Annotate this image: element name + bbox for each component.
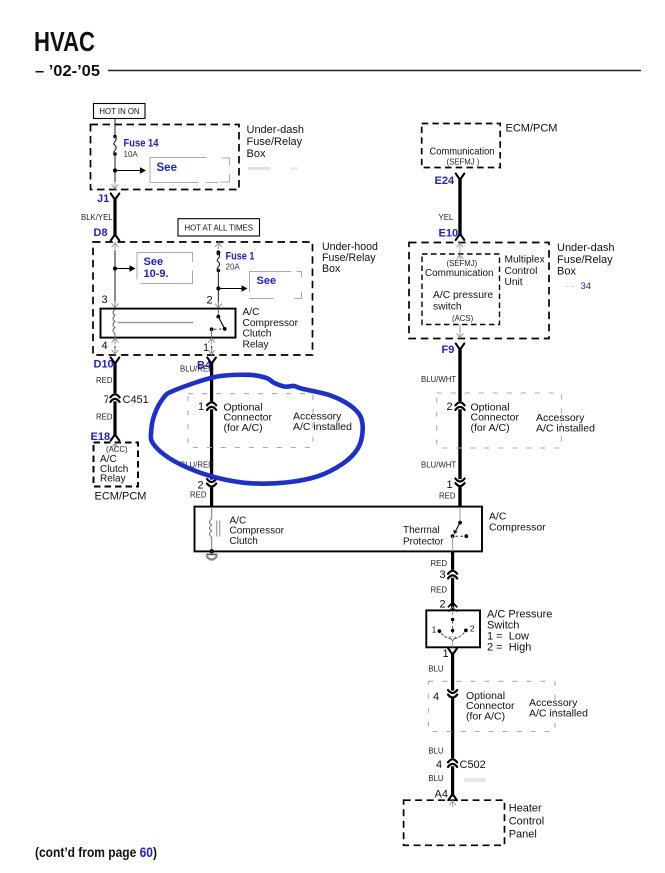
label HOT IN ON box bbox=[94, 104, 146, 119]
svg-text:(cont’d from page 60): (cont’d from page 60) bbox=[35, 845, 157, 860]
svg-text:RED: RED bbox=[96, 413, 113, 422]
svg-text:A/C installed: A/C installed bbox=[529, 708, 588, 720]
svg-text:See: See bbox=[144, 256, 164, 268]
svg-text:10-9.: 10-9. bbox=[144, 268, 169, 280]
svg-text:Under-dash: Under-dash bbox=[557, 242, 614, 254]
wire relay pin1 to box edge bbox=[208, 346, 214, 355]
label B4 bbox=[197, 360, 212, 372]
label Fuse 1 bbox=[226, 251, 255, 263]
connector 1 label (right) bbox=[447, 479, 453, 491]
junction dot see tap right bbox=[216, 286, 220, 290]
svg-text:20A: 20A bbox=[226, 263, 241, 272]
relay pin 2 label bbox=[207, 295, 213, 307]
connector C451 pin 7 label bbox=[104, 394, 110, 406]
optional connector box (A/C) left (dashed) bbox=[188, 394, 313, 448]
wire B4 to compressor (BLU/RED) bbox=[207, 358, 216, 507]
faint erased see-reference bbox=[565, 286, 577, 288]
see-reference box (under-dash) bbox=[150, 158, 230, 183]
svg-text:2 = High: 2 = High bbox=[487, 642, 531, 654]
svg-text:Relay: Relay bbox=[100, 474, 126, 485]
wire from HOT IN ON into under-dash box bbox=[114, 119, 116, 137]
erased text remnant (box 1) bbox=[248, 167, 298, 170]
junction dot see tap left bbox=[113, 266, 117, 270]
terminal heater panel top bbox=[449, 800, 455, 807]
svg-text:Fuse 1: Fuse 1 bbox=[226, 251, 255, 263]
svg-text:C451: C451 bbox=[123, 394, 149, 406]
svg-text:1: 1 bbox=[198, 401, 204, 413]
A/C pressure switch box bbox=[426, 610, 480, 647]
A/C compressor box bbox=[195, 507, 483, 552]
hand-drawn blue ellipse annotation bbox=[151, 375, 363, 484]
footer cont'd from page 60 bbox=[35, 845, 157, 860]
svg-text:RED: RED bbox=[431, 586, 448, 595]
svg-text:A/C installed: A/C installed bbox=[536, 423, 595, 435]
svg-text:HOT IN ON: HOT IN ON bbox=[99, 107, 139, 116]
junction dot fuse 14 tap bbox=[113, 168, 117, 172]
label 20A bbox=[226, 263, 241, 272]
label E10 bbox=[439, 228, 459, 240]
svg-text:Under-dash: Under-dash bbox=[247, 124, 304, 136]
label ECM/PCM (left) bbox=[95, 491, 147, 503]
label Accessory A/C installed bottom bbox=[529, 697, 588, 720]
svg-text:BLU: BLU bbox=[428, 774, 444, 783]
svg-text:Fuse/Relay: Fuse/Relay bbox=[557, 254, 613, 266]
wire below fuse 1 bbox=[217, 271, 219, 309]
svg-text:4: 4 bbox=[436, 759, 442, 771]
connector 2 label (pressure) bbox=[440, 599, 446, 611]
label J1 bbox=[97, 193, 109, 205]
label Optional Connector (for A/C) right bbox=[471, 402, 520, 434]
label D10 bbox=[94, 359, 114, 371]
label D8 bbox=[94, 227, 108, 239]
svg-text:Communication: Communication bbox=[425, 268, 494, 279]
junction dot at compressor ground bbox=[209, 549, 214, 554]
svg-text:F9: F9 bbox=[442, 344, 455, 356]
svg-text:A4: A4 bbox=[435, 789, 448, 801]
label (ACC) bbox=[106, 445, 128, 454]
label E18 bbox=[91, 431, 111, 443]
svg-text:1: 1 bbox=[443, 648, 449, 660]
svg-text:1: 1 bbox=[203, 342, 209, 354]
connector 3 label bbox=[440, 569, 446, 581]
pressure switch pin 1 label bbox=[443, 648, 449, 660]
see-reference box (under-hood) bbox=[250, 272, 302, 299]
terminal at under-dash box bottom bbox=[112, 183, 118, 190]
header rule bbox=[108, 70, 641, 72]
relay pin 2 terminal bbox=[215, 302, 221, 309]
optional connector pin 4 label bbox=[433, 691, 439, 703]
svg-text:Box: Box bbox=[247, 148, 266, 160]
svg-text:Communication: Communication bbox=[430, 147, 495, 158]
svg-text:Thermal: Thermal bbox=[403, 525, 440, 536]
svg-text:A/C: A/C bbox=[243, 307, 260, 318]
svg-text:Control: Control bbox=[509, 816, 544, 828]
relay switch bbox=[210, 309, 227, 337]
heater control panel box (dashed) bbox=[404, 800, 505, 845]
label A/C Clutch Relay bbox=[100, 454, 128, 485]
label A/C Pressure Switch legend bbox=[487, 609, 552, 654]
svg-text:Box: Box bbox=[557, 266, 576, 278]
svg-text:RED: RED bbox=[96, 376, 113, 385]
wire below fuse 14 bbox=[114, 154, 116, 182]
svg-text:Protector: Protector bbox=[403, 537, 444, 548]
label A4 bbox=[435, 789, 448, 801]
connector 2 chevrons (pressure) bbox=[448, 602, 456, 611]
label Under-hood Fuse/Relay Box bbox=[322, 241, 378, 275]
svg-text:Control: Control bbox=[505, 266, 538, 277]
label Accessory A/C installed left bbox=[293, 411, 352, 434]
label A/C Compressor (right) bbox=[489, 512, 546, 534]
A/C compressor clutch relay box bbox=[101, 309, 236, 338]
svg-text:BLU/RED: BLU/RED bbox=[180, 365, 214, 374]
label Optional Connector (for A/C) bottom bbox=[466, 690, 515, 722]
label (ACS) bbox=[452, 314, 474, 323]
optional connector pin 1 label bbox=[198, 401, 204, 413]
fuse F14 bbox=[113, 135, 117, 156]
svg-text:D8: D8 bbox=[94, 227, 108, 239]
connector C451 chevrons bbox=[108, 393, 122, 402]
label BLU (above C502) bbox=[428, 747, 444, 756]
arrow to see-reference bbox=[115, 167, 146, 173]
title HVAC bbox=[34, 26, 95, 57]
optional connector 1 chevrons bbox=[205, 401, 219, 410]
svg-text:RED: RED bbox=[190, 491, 207, 500]
wire relay pin4 to box edge bbox=[112, 346, 118, 355]
svg-text:RED: RED bbox=[439, 492, 456, 501]
label Communication (multiplex) bbox=[425, 268, 494, 279]
optional connector pin 2 label (right) bbox=[447, 401, 453, 413]
svg-text:4: 4 bbox=[433, 691, 439, 703]
label YEL bbox=[439, 213, 454, 222]
see-reference box 10-9 bbox=[137, 253, 193, 284]
svg-text:BLU: BLU bbox=[428, 747, 444, 756]
label C502 bbox=[460, 759, 486, 771]
terminal under-dash2 top bbox=[457, 242, 463, 249]
connector 3 chevrons bbox=[446, 570, 460, 579]
svg-text:2: 2 bbox=[470, 624, 475, 634]
svg-text:E10: E10 bbox=[439, 228, 459, 240]
svg-text:E24: E24 bbox=[435, 175, 455, 187]
svg-text:BLU/WHT: BLU/WHT bbox=[421, 375, 456, 384]
label RED above pressure switch bbox=[431, 586, 448, 595]
ground G (compressor) bbox=[206, 551, 218, 559]
relay pin 4 terminal bbox=[112, 338, 118, 345]
svg-text:4: 4 bbox=[102, 340, 108, 352]
compressor clutch coil bbox=[209, 507, 219, 551]
svg-text:RED: RED bbox=[431, 559, 448, 568]
label RED (middle) bbox=[190, 491, 207, 500]
svg-text:D10: D10 bbox=[94, 359, 114, 371]
optional connector 2 chevrons (right) bbox=[453, 401, 467, 410]
E18 A/C clutch relay box (dashed) bbox=[94, 443, 139, 487]
label E24 bbox=[435, 175, 455, 187]
svg-text:(for A/C): (for A/C) bbox=[471, 422, 510, 434]
svg-text:(SEFMJ ): (SEFMJ ) bbox=[447, 157, 480, 166]
svg-text:Compressor: Compressor bbox=[243, 318, 299, 329]
svg-text:BLU/WHT: BLU/WHT bbox=[421, 461, 456, 470]
label C451 bbox=[123, 394, 149, 406]
label BLU (below pressure switch) bbox=[428, 665, 444, 674]
label (SEFMJ ) (ECM) bbox=[447, 157, 480, 166]
svg-text:Panel: Panel bbox=[509, 829, 537, 841]
connector C502 pin 4 label bbox=[436, 759, 442, 771]
label Multiplex Control Unit bbox=[505, 255, 545, 289]
optional connector box (A/C) bottom (dashed) bbox=[428, 681, 555, 731]
wire compressor to pressure switch (RED) bbox=[451, 551, 454, 610]
label Accessory A/C installed right bbox=[536, 412, 595, 435]
relay pin 4 label bbox=[102, 340, 108, 352]
optional connector box (A/C) right (dashed) bbox=[437, 393, 562, 448]
label BLU/RED (lower) bbox=[180, 461, 214, 470]
label A/C pressure switch (multiplex) bbox=[433, 290, 493, 313]
label RED below compressor bbox=[431, 559, 448, 568]
label Under-dash Fuse/Relay Box bbox=[247, 124, 304, 160]
label 10A bbox=[124, 150, 139, 159]
erased remnant near C502 bbox=[464, 778, 486, 782]
svg-text:switch: switch bbox=[433, 302, 462, 313]
relay pin 3 label bbox=[102, 294, 108, 306]
svg-text:C502: C502 bbox=[460, 759, 486, 771]
label (SEFMJ) (multiplex) bbox=[447, 259, 478, 268]
optional connector 4 chevrons bbox=[446, 690, 460, 699]
svg-text:HVAC: HVAC bbox=[34, 26, 95, 57]
svg-text:J1: J1 bbox=[97, 193, 109, 205]
relay pin 1 terminal bbox=[208, 338, 214, 345]
wire F9 to compressor (BLU/WHT) bbox=[456, 344, 465, 507]
arrow to see 10-9 bbox=[115, 265, 136, 271]
svg-text:2: 2 bbox=[440, 599, 446, 611]
svg-text:See: See bbox=[257, 275, 277, 287]
terminal inner box top bbox=[457, 254, 463, 261]
svg-text:Compressor: Compressor bbox=[489, 523, 546, 534]
terminal E18 box top bbox=[112, 443, 118, 450]
svg-text:(SEFMJ): (SEFMJ) bbox=[447, 259, 478, 268]
svg-text:2: 2 bbox=[447, 401, 453, 413]
wire left branch in under-hood box bbox=[114, 250, 116, 309]
svg-text:34: 34 bbox=[581, 281, 592, 292]
junction dot above fuse 1 bbox=[217, 250, 221, 254]
svg-text:YEL: YEL bbox=[439, 213, 454, 222]
label Thermal Protector bbox=[403, 525, 444, 548]
wire J1 to D8 (BLK/YEL) bbox=[111, 194, 120, 241]
wire E24 to E10 (YEL) bbox=[456, 174, 465, 241]
svg-text:HOT AT ALL TIMES: HOT AT ALL TIMES bbox=[184, 223, 252, 232]
svg-text:1: 1 bbox=[432, 625, 437, 635]
pressure switch internals bbox=[432, 611, 475, 647]
label BLU (below C502) bbox=[428, 774, 444, 783]
svg-text:E18: E18 bbox=[91, 431, 111, 443]
svg-text:Fuse 14: Fuse 14 bbox=[124, 138, 160, 150]
svg-text:Multiplex: Multiplex bbox=[505, 255, 545, 266]
subtitle '02-'05 bbox=[35, 63, 100, 80]
label RED (upper left) bbox=[96, 376, 113, 385]
wire multiplex to F9 bbox=[457, 325, 463, 339]
terminal under-hood top left bbox=[112, 242, 118, 249]
svg-text:A/C: A/C bbox=[489, 512, 507, 523]
svg-text:ECM/PCM: ECM/PCM bbox=[95, 491, 147, 503]
svg-text:BLU: BLU bbox=[428, 665, 444, 674]
label BLU/WHT (upper right) bbox=[421, 375, 456, 384]
svg-text:ECM/PCM: ECM/PCM bbox=[506, 123, 558, 135]
label BLU/RED (upper) bbox=[180, 365, 214, 374]
connector 1 chevrons (right) bbox=[453, 479, 467, 488]
svg-text:(for A/C): (for A/C) bbox=[466, 710, 505, 722]
svg-text:10A: 10A bbox=[124, 150, 139, 159]
wire pressure switch to heater panel (BLU) bbox=[448, 649, 457, 801]
label RED above compressor right bbox=[439, 492, 456, 501]
svg-text:A/C installed: A/C installed bbox=[293, 421, 352, 433]
connector 2 chevrons (middle) bbox=[205, 479, 219, 488]
label BLK/YEL bbox=[81, 213, 113, 222]
relay coil bbox=[113, 310, 115, 338]
svg-text:Unit: Unit bbox=[505, 277, 523, 288]
label A/C Compressor Clutch Relay bbox=[243, 307, 299, 350]
terminal under-hood top right bbox=[215, 242, 221, 249]
under-hood fuse/relay box (dashed) bbox=[93, 242, 313, 355]
svg-text:Relay: Relay bbox=[243, 339, 270, 350]
connector 2 label (middle) bbox=[198, 480, 204, 492]
fuse F1 bbox=[217, 252, 221, 273]
ECM/PCM communication box (dashed) bbox=[422, 124, 501, 168]
svg-text:1: 1 bbox=[447, 479, 453, 491]
label Communication (ECM) bbox=[430, 147, 495, 158]
label Fuse 14 bbox=[124, 138, 160, 150]
wire D10 to E18 (RED) bbox=[111, 358, 120, 441]
label Heater Control Panel bbox=[509, 803, 544, 841]
label F9 bbox=[442, 344, 455, 356]
label Optional Connector (for A/C) left bbox=[224, 402, 273, 434]
svg-text:2: 2 bbox=[207, 295, 213, 307]
label ECM/PCM (top right) bbox=[506, 123, 558, 135]
svg-text:(for A/C): (for A/C) bbox=[224, 422, 263, 434]
svg-text:Heater: Heater bbox=[509, 803, 542, 815]
svg-text:Box: Box bbox=[322, 263, 341, 275]
svg-text:See: See bbox=[157, 162, 177, 174]
svg-text:Clutch: Clutch bbox=[230, 536, 258, 547]
label BLU/WHT (lower right) bbox=[421, 461, 456, 470]
svg-text:3: 3 bbox=[102, 294, 108, 306]
svg-text:– ’02-’05: – ’02-’05 bbox=[35, 63, 100, 80]
svg-text:3: 3 bbox=[440, 569, 446, 581]
relay pin 1 label bbox=[203, 342, 209, 354]
svg-text:Clutch: Clutch bbox=[243, 329, 272, 340]
thermal protector switch bbox=[451, 507, 468, 551]
label A/C Compressor Clutch bbox=[230, 515, 285, 547]
under-dash fuse/relay box 2 (dashed) bbox=[409, 243, 549, 339]
label Under-dash Fuse/Relay Box (right) bbox=[557, 242, 614, 278]
arrow to see (under-hood) bbox=[218, 285, 247, 291]
svg-text:BLK/YEL: BLK/YEL bbox=[81, 213, 113, 222]
label RED (lower left) bbox=[96, 413, 113, 422]
svg-text:(ACC): (ACC) bbox=[106, 445, 128, 454]
wire into multiplex unit bbox=[459, 250, 461, 254]
svg-text:Fuse/Relay: Fuse/Relay bbox=[247, 136, 303, 148]
relay pin 3 terminal bbox=[112, 302, 118, 309]
label HOT AT ALL TIMES box bbox=[178, 219, 260, 236]
multiplex control unit inner box (dashed) bbox=[422, 254, 500, 325]
label 34 page ref bbox=[581, 281, 592, 292]
relay bar bbox=[118, 322, 194, 324]
svg-text:(ACS): (ACS) bbox=[452, 314, 474, 323]
under-dash fuse/relay box (dashed) bbox=[91, 125, 240, 190]
connector C502 chevrons bbox=[446, 758, 460, 767]
svg-text:A/C pressure: A/C pressure bbox=[433, 290, 493, 301]
